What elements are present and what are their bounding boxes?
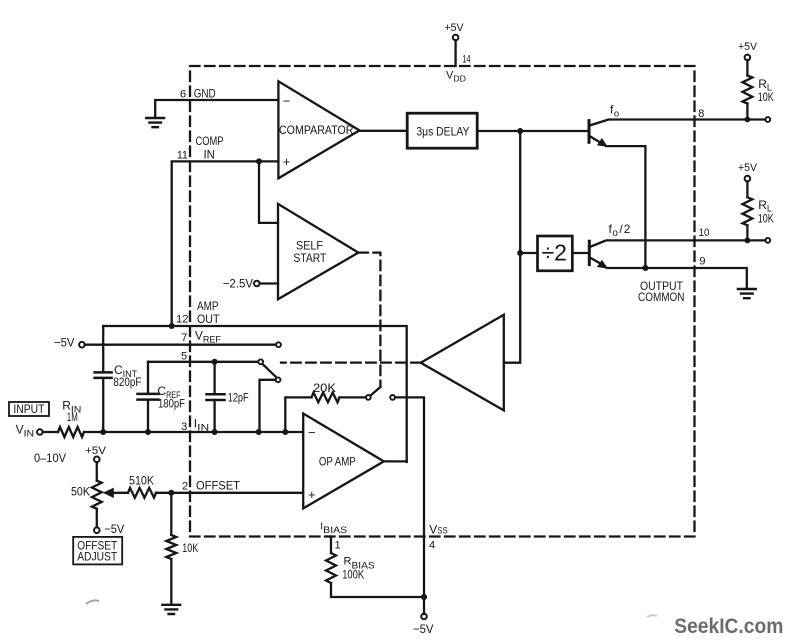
svg-text:+5V: +5V	[445, 22, 465, 34]
svg-text:8: 8	[698, 108, 704, 120]
svg-text:10K: 10K	[758, 90, 774, 104]
svg-text:10: 10	[699, 227, 710, 239]
svg-text:VDD: VDD	[446, 70, 466, 84]
svg-text:−5V: −5V	[413, 622, 434, 636]
svg-text:COMMON: COMMON	[638, 290, 685, 304]
svg-text:−: −	[283, 94, 291, 109]
svg-text:820pF: 820pF	[113, 375, 141, 389]
svg-text:+5V: +5V	[738, 162, 758, 174]
svg-text:+5V: +5V	[85, 445, 107, 457]
svg-text:−: −	[308, 425, 316, 440]
svg-text:COMP: COMP	[196, 134, 224, 148]
svg-text:12: 12	[176, 314, 189, 326]
svg-text:AMP: AMP	[197, 299, 219, 313]
svg-text:÷2: ÷2	[542, 240, 568, 266]
svg-text:VREF: VREF	[195, 328, 222, 344]
svg-text:510K: 510K	[129, 473, 154, 487]
svg-text:1M: 1M	[67, 410, 78, 424]
svg-text:1: 1	[335, 540, 341, 552]
svg-text:−5V: −5V	[104, 522, 124, 536]
svg-text:−5V: −5V	[54, 336, 75, 350]
svg-text:ADJUST: ADJUST	[77, 550, 118, 564]
svg-text:GND: GND	[194, 87, 216, 101]
svg-text:3μs DELAY: 3μs DELAY	[416, 124, 469, 138]
svg-text:IIN: IIN	[194, 416, 209, 432]
svg-text:INPUT: INPUT	[13, 402, 45, 416]
svg-text:2: 2	[182, 481, 188, 493]
svg-text:−2.5V: −2.5V	[223, 277, 253, 291]
svg-text:BIAS: BIAS	[323, 525, 347, 536]
svg-text:OFFSET: OFFSET	[196, 479, 241, 493]
svg-text:6: 6	[180, 89, 186, 101]
svg-text:7: 7	[181, 332, 187, 344]
svg-text:5: 5	[181, 351, 187, 363]
svg-text:14: 14	[462, 54, 471, 66]
svg-text:10K: 10K	[182, 541, 198, 555]
svg-text:180pF: 180pF	[158, 396, 185, 410]
svg-text:4: 4	[429, 539, 435, 551]
svg-text:+: +	[308, 487, 316, 502]
svg-text:VIN: VIN	[16, 423, 35, 439]
svg-text:+5V: +5V	[738, 41, 758, 53]
svg-text:+: +	[283, 154, 291, 169]
svg-text:3: 3	[181, 421, 187, 433]
svg-text:12pF: 12pF	[228, 390, 249, 404]
svg-text:fo: fo	[610, 103, 619, 120]
svg-text:100K: 100K	[342, 567, 364, 581]
svg-text:OUT: OUT	[197, 312, 220, 326]
svg-text:fo/2: fo/2	[609, 222, 632, 239]
svg-text:OP AMP: OP AMP	[319, 455, 356, 469]
svg-text:10K: 10K	[758, 212, 774, 226]
svg-text:IN: IN	[204, 148, 215, 162]
svg-text:VSS: VSS	[429, 522, 447, 536]
svg-text:20K: 20K	[313, 381, 336, 395]
svg-text:11: 11	[177, 150, 188, 162]
svg-text:START: START	[293, 251, 327, 265]
svg-text:0–10V: 0–10V	[34, 451, 66, 465]
svg-text:SeekIC.com: SeekIC.com	[674, 614, 783, 638]
svg-text:50K: 50K	[71, 485, 90, 499]
svg-text:COMPARATOR: COMPARATOR	[279, 123, 354, 137]
svg-text:9: 9	[699, 255, 705, 267]
